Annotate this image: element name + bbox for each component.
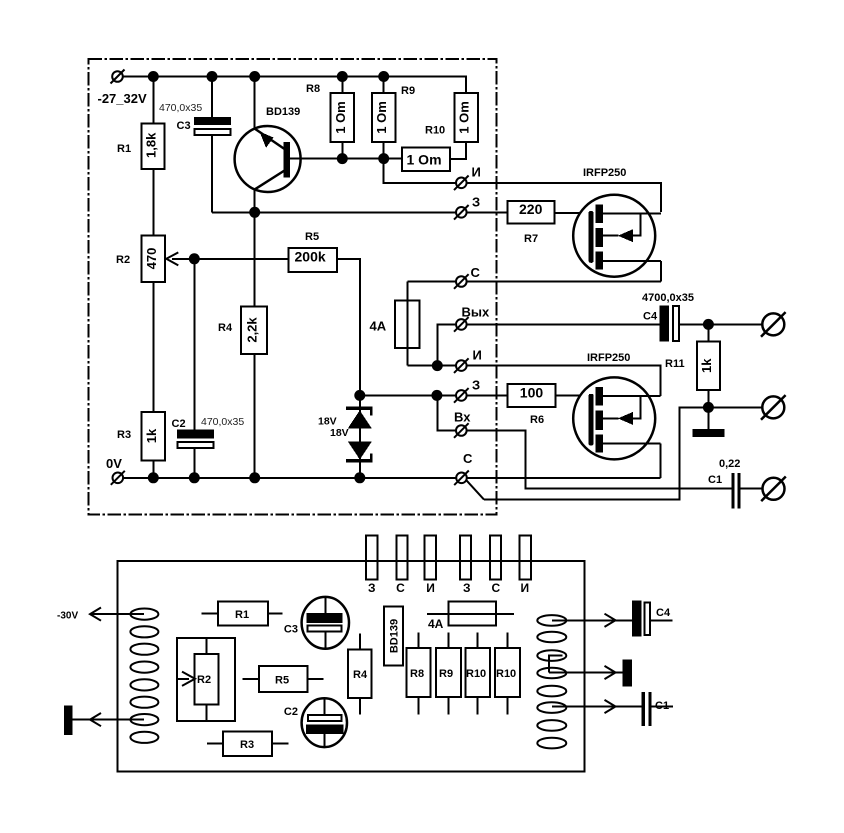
wire З to R6	[467, 394, 508, 396]
svg-text:R11: R11	[665, 358, 685, 370]
terminal output mid	[761, 395, 786, 420]
svg-text:С: С	[396, 581, 405, 595]
node output bottom junction	[703, 402, 714, 413]
PCB resistor R10 a	[465, 633, 490, 715]
PCB resistor R5	[243, 666, 324, 692]
svg-text:18V: 18V	[330, 427, 349, 439]
wire top rail	[153, 77, 466, 94]
svg-text:R2: R2	[116, 254, 130, 266]
terminal -27_32V	[98, 70, 154, 106]
capacitor C3 470,0x35	[159, 77, 231, 213]
PCB output pad middle	[549, 660, 632, 687]
wire wiper to R5	[194, 258, 288, 260]
PCB capacitor C3	[284, 597, 349, 649]
svg-text:С: С	[491, 581, 500, 595]
terminal И upper	[454, 165, 481, 191]
wire base line	[290, 158, 402, 160]
wire З upper line	[212, 211, 456, 213]
transistor Q1 BD139	[235, 77, 301, 213]
svg-text:18V: 18V	[318, 416, 337, 428]
svg-text:100: 100	[520, 384, 544, 400]
fuse FU1 4A	[370, 282, 420, 366]
terminal Вых	[454, 305, 490, 332]
wire R2-R3	[152, 282, 154, 412]
svg-text:470,0x35: 470,0x35	[159, 102, 202, 114]
svg-text:R5: R5	[305, 231, 319, 243]
wire R7 to gate	[554, 212, 589, 214]
svg-text:R8: R8	[306, 83, 320, 95]
svg-text:Вых: Вых	[462, 305, 490, 320]
svg-text:IRFP250: IRFP250	[587, 352, 630, 364]
diode VD2 18V zener	[330, 427, 373, 461]
svg-text:BD139: BD139	[389, 619, 401, 653]
resistor R6 100	[508, 384, 556, 426]
resistor R1 1,8k	[117, 77, 165, 170]
PCB resistor R3	[207, 731, 288, 756]
wire Вх to C1	[467, 431, 732, 489]
wire diagonal from С bottom terminal	[466, 480, 484, 499]
svg-text:2,2k: 2,2k	[245, 317, 260, 343]
svg-text:R9: R9	[439, 668, 453, 680]
node emitter junction	[249, 207, 260, 218]
wire И to VT1 source	[467, 183, 662, 212]
terminal С bottom	[454, 451, 473, 485]
svg-text:4A: 4A	[428, 617, 444, 631]
svg-text:200k: 200k	[295, 248, 326, 264]
svg-text:З: З	[472, 195, 480, 210]
svg-text:1 Om: 1 Om	[374, 101, 389, 134]
svg-text:0,22: 0,22	[719, 458, 740, 470]
svg-text:-27_32V: -27_32V	[98, 91, 147, 106]
svg-text:1 Om: 1 Om	[407, 152, 442, 168]
wire R6 to gate	[556, 394, 589, 396]
svg-text:C2: C2	[172, 418, 186, 430]
svg-text:C3: C3	[177, 120, 191, 132]
svg-text:З: З	[368, 581, 376, 595]
wire З lower line	[360, 394, 456, 396]
PCB resistor R10 b	[495, 633, 520, 715]
wire С upper line	[407, 281, 661, 283]
wire output feedback path	[484, 407, 709, 499]
svg-text:-30V: -30V	[57, 611, 78, 622]
svg-text:C3: C3	[284, 624, 298, 636]
svg-text:Вх: Вх	[454, 410, 471, 425]
svg-text:И: И	[520, 581, 529, 595]
svg-text:R4: R4	[353, 669, 368, 681]
svg-text:IRFP250: IRFP250	[583, 167, 626, 179]
capacitor C2 470,0x35	[172, 259, 245, 478]
node Вх junction	[431, 390, 442, 401]
PCB resistor R9	[436, 633, 461, 715]
terminal И lower	[454, 348, 482, 373]
node R2 wiper junction	[189, 253, 200, 264]
PCB capacitor C2	[284, 698, 347, 747]
PCB trimmer R2	[177, 638, 235, 721]
wire З to R7	[467, 211, 508, 213]
PCB transistor BD139	[384, 606, 403, 665]
node 0V junctions	[148, 472, 365, 483]
resistor R8 1 Om	[306, 77, 354, 159]
wire junction to output terminal mid	[708, 406, 762, 408]
svg-text:1 Om: 1 Om	[333, 101, 348, 134]
PCB resistor R1	[202, 601, 283, 625]
svg-text:C2: C2	[284, 706, 298, 718]
node top rail junctions	[148, 71, 389, 82]
wire Вх line	[437, 395, 456, 430]
wire fin3 hook	[549, 656, 563, 673]
svg-text:C4: C4	[643, 311, 658, 323]
transistor VT2 IRFP250	[573, 352, 660, 478]
resistor R7 220	[508, 201, 555, 245]
capacitor C1 0,22	[708, 458, 762, 508]
PCB fuse 4A	[427, 601, 514, 631]
PCB pad labels	[368, 581, 529, 595]
svg-text:R4: R4	[218, 322, 233, 334]
wire Вых tap	[437, 324, 455, 365]
svg-text:0V: 0V	[106, 456, 122, 471]
resistor 1 Om (parallel, top right)	[450, 93, 478, 159]
PCB capacitor C4 output	[552, 601, 673, 637]
svg-text:1,8k: 1,8k	[144, 132, 159, 158]
wire Вых to C4	[467, 323, 660, 325]
node output top junction	[703, 319, 714, 330]
svg-text:R9: R9	[401, 85, 415, 97]
PCB pad И 2	[520, 536, 531, 580]
resistor R10 1 Om	[402, 125, 450, 171]
resistor R11 1k	[665, 324, 720, 407]
svg-text:И: И	[472, 165, 481, 180]
diode VD1 18V zener	[318, 395, 373, 477]
terminal С upper	[454, 265, 481, 289]
PCB pad С 2	[490, 536, 501, 580]
terminal output bottom	[761, 477, 786, 502]
svg-text:R3: R3	[117, 429, 131, 441]
wire R1-R2	[152, 169, 154, 236]
node Вых junction	[432, 360, 443, 371]
ground bar	[692, 407, 724, 437]
wire И lower line left	[407, 365, 456, 367]
PCB capacitor C1 output	[552, 692, 673, 726]
svg-text:R1: R1	[235, 609, 249, 621]
PCB board outline	[117, 561, 584, 772]
svg-text:R10: R10	[496, 668, 516, 680]
svg-text:C1: C1	[655, 700, 669, 712]
wire R5 to З junction	[337, 259, 360, 396]
resistor R4 2,2k	[218, 212, 267, 478]
PCB pad С 1	[397, 536, 408, 580]
svg-text:R5: R5	[275, 675, 289, 687]
resistor R2 470 trimmer	[116, 236, 194, 283]
PCB ground pad left	[64, 705, 144, 735]
svg-text:И: И	[426, 581, 435, 595]
terminal З lower	[454, 378, 480, 403]
svg-text:470,0x35: 470,0x35	[201, 416, 244, 428]
svg-text:C1: C1	[708, 474, 722, 486]
svg-text:R3: R3	[240, 739, 254, 751]
svg-text:R7: R7	[524, 233, 538, 245]
schematic dash-dot border	[89, 59, 497, 515]
svg-text:4700,0x35: 4700,0x35	[642, 292, 694, 304]
svg-text:З: З	[472, 378, 480, 393]
resistor R3 1k	[117, 412, 165, 478]
wire 0V rail	[123, 477, 660, 479]
node R5 output junction	[354, 390, 365, 401]
PCB resistor R8	[407, 633, 431, 715]
terminal 0V	[106, 456, 125, 485]
svg-text:1 Om: 1 Om	[457, 101, 472, 134]
svg-text:220: 220	[519, 201, 543, 217]
svg-text:З: З	[463, 581, 471, 595]
svg-text:BD139: BD139	[266, 106, 300, 118]
svg-text:R10: R10	[425, 125, 445, 137]
transistor VT1 IRFP250	[573, 167, 661, 282]
PCB pad З 2	[460, 536, 471, 580]
svg-text:R8: R8	[410, 668, 424, 680]
svg-text:C4: C4	[656, 607, 671, 619]
PCB pad З 1	[366, 536, 378, 580]
wire -30V arrow	[57, 608, 144, 622]
svg-text:R6: R6	[530, 414, 544, 426]
node base junctions	[337, 153, 389, 164]
svg-text:R2: R2	[197, 674, 211, 686]
wire to И terminal (upper)	[384, 159, 456, 183]
wire И lower to VT2 source	[467, 366, 661, 396]
terminal Вх	[454, 410, 471, 438]
resistor R9 1 Om	[372, 77, 415, 159]
svg-text:И: И	[473, 348, 482, 363]
PCB pad И 1	[425, 536, 436, 580]
PCB left heatsink fins	[130, 609, 158, 743]
PCB resistor R4	[348, 633, 372, 714]
resistor R5 200k	[289, 231, 337, 272]
svg-text:4A: 4A	[370, 319, 387, 334]
capacitor C4 4700,0x35	[642, 292, 762, 342]
terminal З upper	[454, 195, 480, 220]
svg-text:С: С	[471, 265, 481, 280]
svg-text:R1: R1	[117, 143, 131, 155]
terminal output top	[761, 312, 786, 337]
svg-text:1k: 1k	[144, 428, 159, 443]
svg-text:R10: R10	[466, 668, 486, 680]
PCB right heatsink fins	[537, 615, 566, 748]
svg-text:С: С	[463, 451, 473, 466]
svg-text:470: 470	[144, 248, 159, 270]
svg-text:1k: 1k	[699, 358, 714, 373]
